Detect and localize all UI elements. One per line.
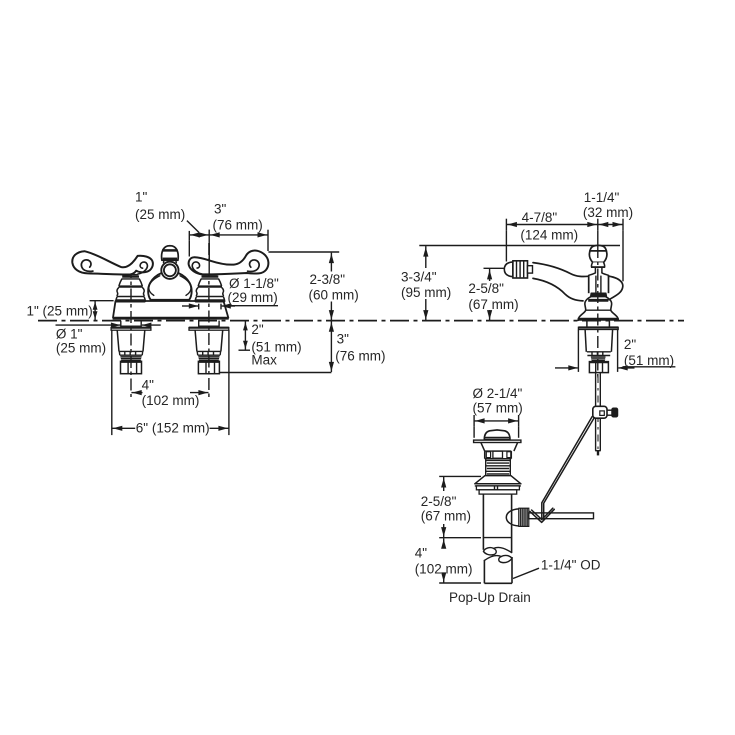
svg-text:2-5/8": 2-5/8" [468,281,504,296]
svg-text:(67 mm): (67 mm) [468,297,518,312]
svg-text:(95 mm): (95 mm) [401,285,451,300]
svg-text:1-1/4" OD: 1-1/4" OD [541,558,601,573]
svg-text:(60 mm): (60 mm) [309,287,359,302]
svg-text:3": 3" [337,332,350,347]
svg-text:(67 mm): (67 mm) [421,509,471,524]
svg-text:1": 1" [135,190,148,205]
svg-text:2": 2" [624,337,637,352]
svg-text:6" (152 mm): 6" (152 mm) [136,421,210,436]
svg-text:4": 4" [415,545,428,560]
svg-text:1" (25 mm): 1" (25 mm) [27,304,93,319]
svg-text:4-7/8": 4-7/8" [522,210,558,225]
svg-text:(32 mm): (32 mm) [583,205,633,220]
svg-text:Pop-Up Drain: Pop-Up Drain [449,590,531,605]
svg-text:1-1/4": 1-1/4" [584,190,620,205]
svg-text:2-5/8": 2-5/8" [421,494,457,509]
svg-text:2-3/8": 2-3/8" [310,272,346,287]
svg-text:Ø 1": Ø 1" [56,327,83,342]
svg-text:3": 3" [214,202,227,217]
svg-text:4": 4" [142,377,155,392]
svg-text:(51 mm): (51 mm) [624,353,674,368]
svg-text:Max: Max [251,352,277,367]
svg-text:Ø 1-1/8": Ø 1-1/8" [229,276,279,291]
svg-text:(124 mm): (124 mm) [520,227,578,242]
svg-text:(57 mm): (57 mm) [473,400,523,415]
svg-text:3-3/4": 3-3/4" [401,270,437,285]
svg-text:(25 mm): (25 mm) [135,207,185,222]
svg-text:(102 mm): (102 mm) [142,393,200,408]
svg-text:(102 mm): (102 mm) [415,561,473,576]
svg-text:(76 mm): (76 mm) [213,217,263,232]
svg-text:(29 mm): (29 mm) [228,290,278,305]
svg-text:(25 mm): (25 mm) [56,341,106,356]
svg-text:2": 2" [251,322,264,337]
svg-text:Ø 2-1/4": Ø 2-1/4" [473,386,523,401]
svg-text:(76 mm): (76 mm) [335,348,385,363]
